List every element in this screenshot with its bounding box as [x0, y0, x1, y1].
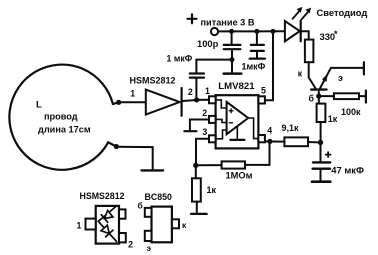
pin 3	[209, 135, 216, 142]
resistor R5 100к	[321, 91, 366, 103]
svg-text:*: *	[334, 29, 338, 39]
wire node A to op-amp pin 1	[197, 99, 210, 101]
op-amp triangle symbol	[227, 102, 249, 134]
svg-text:2: 2	[188, 87, 193, 97]
node D (output junction)	[267, 139, 272, 144]
ground G1	[224, 60, 242, 74]
plus input mark	[229, 109, 233, 113]
wire upper tap to diode anode	[121, 101, 146, 103]
internal wire pin1 to +in	[216, 100, 227, 108]
op-amp U1 LMV821 body	[216, 95, 259, 148]
loop antenna L1 (wire loop, open at right)	[9, 65, 118, 170]
svg-text:к: к	[298, 69, 303, 79]
internal wire output to pin4	[248, 118, 258, 139]
svg-text:2: 2	[128, 240, 133, 250]
node E (RC junction)	[318, 140, 323, 145]
node rail-pin5	[271, 29, 276, 34]
LED HL1 (Светодиод)	[285, 21, 309, 41]
internal wire pin3	[216, 130, 227, 139]
svg-text:1: 1	[205, 86, 210, 96]
svg-text:100p: 100p	[197, 38, 219, 49]
ground G3	[142, 169, 164, 171]
wire rail to op-amp pin 5	[265, 31, 273, 100]
svg-text:4: 4	[267, 125, 272, 135]
node rail-100p	[229, 29, 234, 34]
wire pin3 to node C	[196, 139, 209, 163]
wire pin2 to ground	[190, 120, 209, 131]
diode VD1 HSMS2812	[146, 88, 182, 116]
svg-text:1 мкФ: 1 мкФ	[167, 54, 193, 64]
node lower tap (junction dot)	[114, 144, 119, 149]
svg-text:BC850: BC850	[145, 192, 172, 202]
svg-text:1к: 1к	[328, 114, 338, 124]
minus input mark	[229, 122, 232, 124]
resistor R3 9,1к	[270, 137, 318, 146]
svg-text:1МОм: 1МОм	[226, 171, 253, 181]
svg-text:б: б	[138, 201, 143, 211]
svg-text:HSMS2812: HSMS2812	[130, 76, 176, 86]
capacitor C4 47 мкФ (polarized)	[312, 143, 330, 182]
pin 1	[209, 96, 216, 103]
capacitor C2 1 мкФ (node A to ground line)	[190, 60, 232, 100]
svg-text:HSMS2812: HSMS2812	[80, 191, 125, 201]
internal wire pin2 to -in	[216, 119, 227, 122]
node upper tap (junction dot)	[116, 100, 121, 105]
transistor VT1 BC850	[309, 62, 364, 94]
pin 4	[258, 135, 265, 142]
svg-text:э: э	[338, 73, 343, 83]
svg-text:длина 17см: длина 17см	[38, 125, 91, 135]
plus sign	[188, 14, 197, 23]
plus mark of C4	[326, 152, 331, 157]
wire diode cathode to node A	[183, 100, 197, 101]
svg-text:э: э	[146, 243, 151, 253]
resistor R1 1МОм (feedback)	[196, 144, 270, 169]
capacitor C1 100p	[224, 31, 241, 59]
ground G2	[184, 130, 196, 132]
LED light arrows	[293, 7, 312, 20]
pin 5	[258, 96, 265, 103]
wire lower tap to ground	[119, 147, 153, 169]
resistor R6 330	[305, 40, 314, 63]
svg-text:1: 1	[130, 89, 135, 99]
svg-text:3: 3	[202, 127, 207, 137]
internal ground	[230, 126, 244, 139]
node rail-1mkF	[254, 29, 259, 34]
svg-text:питание 3 В: питание 3 В	[201, 18, 255, 28]
svg-text:1: 1	[77, 220, 82, 230]
svg-text:47 мкФ: 47 мкФ	[331, 164, 364, 175]
svg-text:100к: 100к	[341, 107, 361, 117]
svg-text:1к: 1к	[207, 185, 217, 195]
svg-text:5: 5	[261, 86, 266, 96]
svg-text:2: 2	[202, 108, 207, 118]
svg-text:1мкФ: 1мкФ	[242, 61, 266, 71]
pin 2	[209, 116, 216, 123]
svg-text:б: б	[309, 93, 315, 103]
svg-text:LMV821: LMV821	[218, 81, 255, 92]
resistor R2 1к (node C to ground)	[192, 165, 201, 212]
node C (feedback junction)	[193, 163, 198, 168]
node base (junction dot)	[316, 94, 321, 99]
resistor R4 1к (base to output node)	[317, 99, 326, 141]
svg-text:9,1к: 9,1к	[282, 123, 300, 133]
wire +3V rail	[218, 30, 285, 32]
internal diodes of HSMS2812	[98, 206, 116, 242]
ground G4	[191, 213, 207, 215]
capacitor C3 1мкФ (rail decoupling)	[250, 31, 265, 58]
svg-text:330: 330	[320, 31, 336, 42]
wire pin4 to node D	[265, 140, 268, 142]
power terminal (+3V input circle)	[211, 28, 218, 35]
svg-text:Светодиод: Светодиод	[317, 7, 368, 18]
svg-text:L: L	[36, 100, 42, 111]
svg-text:провод: провод	[44, 112, 78, 122]
node A (diode output junction)	[194, 97, 199, 102]
node B (ground junction under 100p)	[230, 57, 235, 62]
